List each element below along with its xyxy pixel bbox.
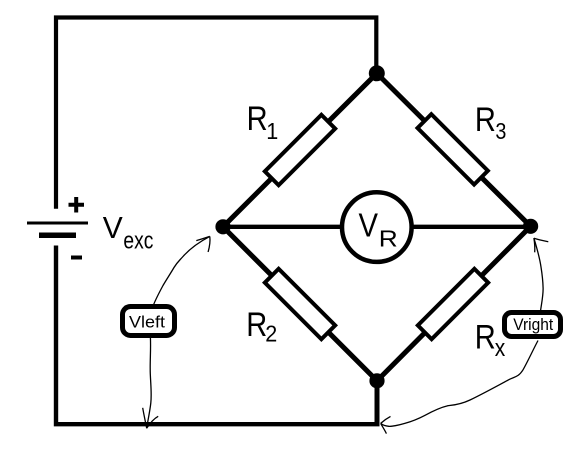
svg-text:3: 3 bbox=[495, 118, 506, 144]
svg-text:x: x bbox=[495, 335, 506, 362]
svg-text:2: 2 bbox=[265, 321, 277, 347]
svg-text:R: R bbox=[246, 306, 267, 344]
svg-text:R: R bbox=[379, 226, 398, 252]
svg-text:V: V bbox=[359, 207, 379, 244]
svg-text:V: V bbox=[103, 210, 123, 245]
svg-text:Vright: Vright bbox=[513, 316, 553, 334]
svg-text:exc: exc bbox=[123, 227, 153, 254]
svg-text:R: R bbox=[475, 101, 496, 139]
svg-text:1: 1 bbox=[266, 118, 278, 144]
svg-text:R: R bbox=[475, 319, 496, 357]
svg-text:Vleft: Vleft bbox=[129, 313, 165, 331]
svg-text:R: R bbox=[247, 100, 268, 138]
